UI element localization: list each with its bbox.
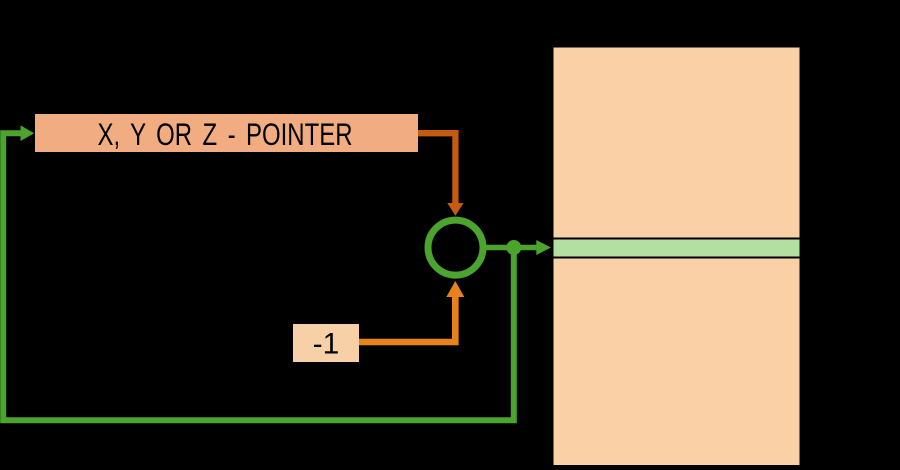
svg-text:-1: -1 <box>313 328 340 361</box>
svg-text:X, Y OR Z - POINTER: X, Y OR Z - POINTER <box>98 116 353 152</box>
